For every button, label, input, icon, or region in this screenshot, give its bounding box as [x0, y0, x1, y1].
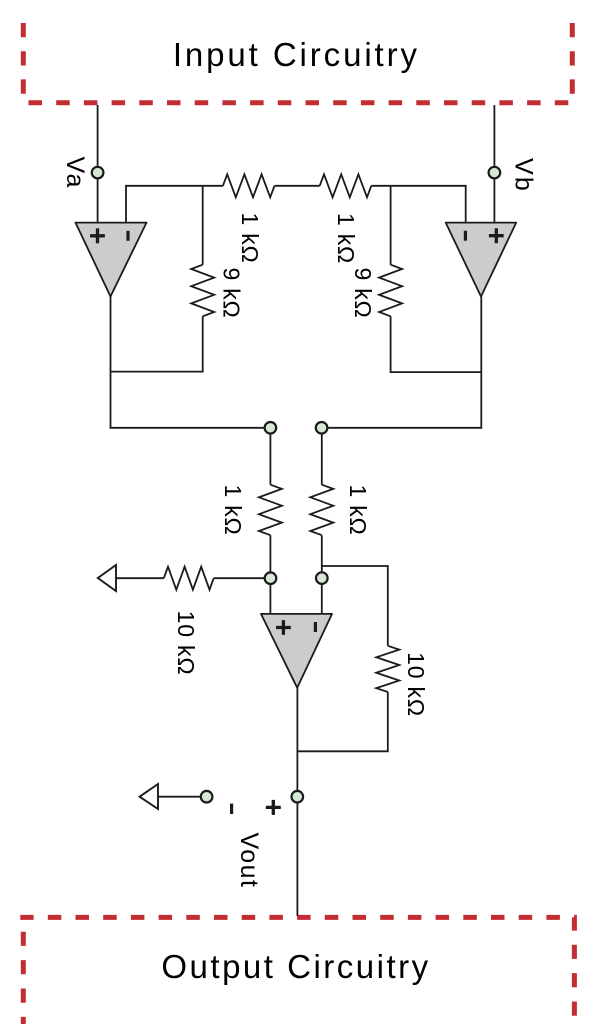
- U2 minus: [464, 231, 467, 241]
- wire mid right upper: [321, 428, 323, 485]
- wire mid left lower: [269, 535, 271, 614]
- wire mid right lower: [321, 535, 323, 614]
- output circuitry box: [20, 917, 574, 1024]
- U1 minus: [126, 231, 129, 241]
- svg-text:Va: Va: [61, 156, 89, 189]
- svg-text:1 kΩ: 1 kΩ: [220, 484, 246, 535]
- resistor R7 10k horizontal: [164, 567, 214, 590]
- wire ground1 to R7: [116, 577, 164, 579]
- svg-text:9 kΩ: 9 kΩ: [218, 267, 244, 318]
- ground arrow G2: [140, 784, 158, 809]
- node N4: [316, 572, 328, 584]
- U1 plus: [90, 228, 105, 243]
- svg-text:1 kΩ: 1 kΩ: [237, 212, 263, 263]
- U2 plus: [489, 228, 504, 243]
- wire top rail right segment: [371, 186, 465, 223]
- wire mid left upper: [269, 428, 271, 485]
- svg-text:1 kΩ: 1 kΩ: [345, 484, 371, 535]
- op-amp U3: [261, 614, 332, 688]
- resistor R5 1k mid left: [259, 485, 282, 536]
- U3 plus: [276, 620, 291, 635]
- node N6 output: [292, 791, 304, 803]
- node Vb: [489, 167, 501, 179]
- node N1: [265, 422, 277, 434]
- wire U3 output: [296, 688, 298, 916]
- wire 9k left branch bottom: [111, 316, 203, 371]
- svg-text:Output Circuitry: Output Circuitry: [161, 948, 430, 985]
- resistor R6 1k mid right: [310, 485, 333, 536]
- wire U1 output: [111, 297, 271, 428]
- output plus sign: [266, 800, 281, 815]
- wire 9k right branch bottom: [391, 316, 482, 372]
- wire 9k right branch top: [390, 186, 392, 265]
- wire Vb input: [493, 105, 495, 223]
- ground arrow G1: [98, 565, 116, 591]
- svg-text:10 kΩ: 10 kΩ: [173, 611, 199, 676]
- resistor R1 1k horizontal left: [223, 174, 275, 197]
- wire top rail left segment: [126, 186, 223, 223]
- op-amp U2: [446, 223, 517, 297]
- svg-text:1 kΩ: 1 kΩ: [333, 213, 359, 264]
- U3 minus: [314, 622, 317, 632]
- wire ground2 to node: [158, 796, 207, 798]
- wire R7 to node N3: [214, 577, 271, 579]
- wire R8 to output: [297, 692, 387, 751]
- resistor R8 10k feedback: [376, 646, 399, 692]
- node Va: [92, 167, 104, 179]
- resistor R2 1k horizontal right: [320, 174, 372, 197]
- output minus sign: [230, 804, 233, 814]
- resistor R4 9k right: [379, 265, 402, 317]
- wire between R1 and R2: [275, 185, 320, 187]
- node N5: [201, 791, 213, 803]
- wire 9k left branch top: [202, 186, 204, 265]
- svg-text:Input Circuitry: Input Circuitry: [173, 36, 420, 73]
- node N2: [316, 422, 328, 434]
- node N3: [265, 572, 277, 584]
- input circuitry box: [23, 23, 574, 103]
- svg-text:Vb: Vb: [510, 158, 538, 193]
- op-amp U1: [76, 223, 147, 297]
- wire U2 output: [322, 297, 482, 428]
- svg-text:Vout: Vout: [235, 832, 263, 888]
- svg-text:9 kΩ: 9 kΩ: [350, 267, 376, 318]
- wire Va input: [97, 105, 99, 223]
- svg-text:10 kΩ: 10 kΩ: [403, 652, 429, 717]
- resistor R3 9k left: [191, 265, 214, 317]
- wire feedback tap: [322, 566, 388, 646]
